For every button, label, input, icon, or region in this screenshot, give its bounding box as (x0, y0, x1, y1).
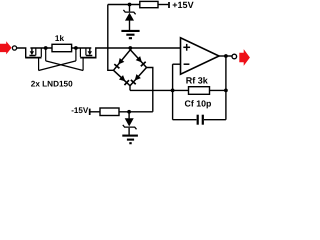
svg-text:Rf 3k: Rf 3k (186, 76, 209, 86)
svg-text:Cf 10p: Cf 10p (185, 98, 213, 108)
svg-text:-15V: -15V (71, 106, 89, 115)
svg-text:1k: 1k (55, 34, 65, 43)
svg-text:2x LND150: 2x LND150 (31, 80, 73, 89)
svg-text:+15V: +15V (172, 0, 193, 10)
